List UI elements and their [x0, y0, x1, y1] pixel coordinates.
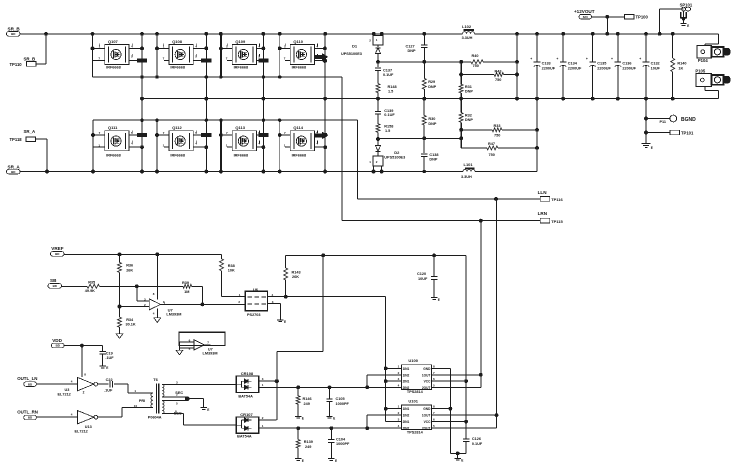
off-page arrow at Q114 pin — [315, 133, 328, 139]
svg-text:2200UF: 2200UF — [542, 66, 556, 70]
svg-text:1K: 1K — [678, 66, 683, 70]
svg-text:Q109: Q109 — [235, 39, 246, 44]
svg-text:L101: L101 — [464, 162, 474, 167]
wire bottom gate bus (row2) — [93, 119, 358, 121]
svg-text:TP116: TP116 — [551, 197, 563, 202]
svg-text:L102: L102 — [462, 24, 472, 29]
resistor R146 249 — [297, 387, 299, 396]
svg-text:1.5: 1.5 — [388, 90, 393, 94]
wire LLN riser — [357, 120, 359, 199]
wire U101 GND — [432, 408, 451, 410]
svg-text:BGND: BGND — [681, 117, 696, 123]
svg-text:TP110: TP110 — [10, 62, 23, 67]
svg-text:249: 249 — [305, 445, 311, 449]
resistor R31 DNP — [459, 84, 463, 93]
svg-text:P0604A: P0604A — [148, 416, 162, 420]
svg-text:750: 750 — [495, 78, 501, 82]
wire U100 1OUT/2OUT to LRN — [432, 374, 481, 376]
svg-text:E: E — [284, 320, 286, 324]
svg-text:LRN: LRN — [538, 211, 548, 216]
svg-text:R139: R139 — [304, 440, 313, 444]
svg-text:R34: R34 — [126, 318, 134, 322]
svg-text:BAT54A: BAT54A — [238, 395, 253, 399]
svg-text:SB: SB — [50, 278, 57, 283]
wire CR108 out to U100 — [298, 386, 401, 388]
op-amp U7 LM393M — [120, 254, 246, 322]
svg-text:PRI: PRI — [139, 399, 145, 403]
svg-text:C22: C22 — [106, 378, 113, 382]
capacitor C134 2200UF — [556, 32, 582, 100]
transistor Q114 (IRF6668) — [278, 120, 327, 173]
test point TP100 — [625, 15, 635, 20]
svg-text:1IN1: 1IN1 — [403, 407, 410, 411]
svg-text:U13: U13 — [85, 425, 92, 429]
connector P104 — [697, 46, 730, 64]
wire VCC drop to drivers — [465, 255, 467, 438]
dual diode CR108 BAT54A — [236, 371, 298, 398]
svg-text:2OUT: 2OUT — [422, 386, 431, 390]
svg-text:VDD: VDD — [52, 338, 62, 343]
svg-text:R140: R140 — [677, 62, 686, 66]
transistor Q107 (IRF6668) — [91, 32, 146, 77]
svg-text:SR_B: SR_B — [8, 27, 21, 32]
resistor R34 30.1K — [118, 317, 122, 327]
svg-text:R39: R39 — [182, 281, 189, 285]
svg-text:TPS2814: TPS2814 — [407, 390, 424, 394]
svg-text:E: E — [302, 459, 304, 463]
svg-text:R158: R158 — [384, 124, 393, 128]
wire U100 GND — [432, 367, 451, 369]
resistor R140 1K — [671, 32, 687, 100]
svg-text:750: 750 — [473, 64, 479, 68]
svg-text:+: + — [639, 57, 641, 61]
svg-text:E: E — [461, 459, 463, 463]
wire lower junction row y=138.3 — [378, 137, 461, 139]
svg-text:GND: GND — [423, 367, 431, 371]
svg-text:249: 249 — [304, 402, 310, 406]
gate driver U3 EL7212 — [36, 377, 97, 396]
test point TP116 — [540, 197, 550, 202]
wire U101 VCC — [432, 421, 467, 423]
svg-text:750: 750 — [494, 133, 500, 137]
svg-text:2IN2: 2IN2 — [403, 427, 410, 431]
transformer T6 P0604A — [139, 377, 236, 425]
node BGND / P11 — [645, 99, 647, 142]
capacitor C138 DNP — [421, 153, 427, 155]
wire VREF row — [64, 253, 222, 255]
resistor R29 DNP — [423, 48, 425, 79]
wire SR_B to top bus — [20, 33, 463, 35]
wire +12V drop to bus — [606, 17, 608, 34]
svg-text:E: E — [651, 146, 653, 150]
test point TP101 — [646, 132, 670, 134]
wire U6 out to driver inputs — [286, 296, 386, 298]
svg-text:.1UF: .1UF — [105, 356, 114, 360]
transistor Q111 (IRF6668) — [92, 120, 147, 173]
resistor R43 750 — [461, 74, 494, 76]
transistor Q109 (IRF6668) — [220, 32, 269, 77]
svg-text:Q112: Q112 — [172, 125, 182, 130]
svg-text:R31: R31 — [465, 85, 472, 89]
svg-text:R43: R43 — [495, 69, 502, 73]
svg-text:1OUT: 1OUT — [422, 373, 431, 377]
svg-text:E: E — [335, 459, 337, 463]
transistor Q112 (IRF6668) — [156, 120, 211, 173]
IC U101 TPS2814 — [398, 398, 435, 434]
wire input ties U100 — [366, 375, 368, 388]
transistor Q108 (IRF6668) — [156, 32, 211, 77]
svg-text:0.1UF: 0.1UF — [384, 113, 395, 117]
svg-text:C134: C134 — [568, 62, 578, 66]
svg-text:E: E — [106, 366, 108, 370]
svg-text:U3: U3 — [65, 388, 70, 392]
svg-text:TP101: TP101 — [681, 131, 694, 136]
svg-text:TP118: TP118 — [10, 137, 23, 142]
svg-text:10UF: 10UF — [651, 66, 661, 70]
svg-text:2200UF: 2200UF — [622, 66, 636, 70]
svg-text:DNP: DNP — [428, 122, 436, 126]
speaker SP101 — [658, 2, 693, 35]
wire P105 to mid bus — [704, 86, 706, 90]
wire CR107 out to U101 — [298, 427, 401, 429]
svg-text:SR_A: SR_A — [24, 129, 37, 134]
svg-text:2OUT: 2OUT — [422, 427, 431, 431]
svg-text:LLN: LLN — [538, 190, 548, 195]
svg-text:C139: C139 — [384, 109, 393, 113]
svg-text:IRF6668: IRF6668 — [234, 66, 249, 70]
svg-text:E: E — [302, 417, 304, 421]
capacitor C22 .1UF — [98, 383, 109, 385]
svg-text:Q114: Q114 — [293, 125, 303, 130]
resistor R148 1.5 — [377, 71, 379, 84]
svg-text:0.1UF: 0.1UF — [383, 73, 394, 77]
svg-text:+: + — [556, 57, 558, 61]
capacitor C136 2200UF — [611, 32, 637, 100]
resistor R35 49.9K — [62, 285, 88, 287]
resistor R39 1M — [137, 285, 183, 287]
svg-text:1OUT: 1OUT — [422, 414, 431, 418]
wire U101 1OUT/2OUT to LLN — [432, 414, 497, 416]
svg-text:1000PF: 1000PF — [336, 442, 350, 446]
svg-text:T6: T6 — [153, 377, 158, 382]
svg-text:VCC: VCC — [424, 380, 431, 384]
svg-text:0.1UF: 0.1UF — [472, 442, 483, 446]
resistor R143 26K — [285, 255, 287, 268]
svg-text:C137: C137 — [383, 69, 392, 73]
capacitor C139 0.1UF — [377, 99, 379, 112]
svg-text:IRF6668: IRF6668 — [234, 153, 249, 157]
svg-text:R33: R33 — [494, 124, 501, 128]
svg-text:U101: U101 — [408, 398, 418, 403]
svg-text:R38: R38 — [228, 264, 235, 268]
svg-text:UPS5100E3: UPS5100E3 — [384, 156, 405, 160]
wire VDD to U3 pin8 — [81, 346, 83, 377]
svg-text:1IN2: 1IN2 — [403, 414, 410, 418]
svg-text:EL7212: EL7212 — [75, 430, 88, 434]
svg-text:1IN1: 1IN1 — [403, 367, 410, 371]
svg-text:C120: C120 — [417, 272, 426, 276]
svg-text:OUTL_LN: OUTL_LN — [17, 376, 37, 381]
svg-text:R32: R32 — [465, 113, 472, 117]
svg-text:C135: C135 — [597, 62, 606, 66]
resistor R47 750 — [461, 147, 487, 149]
capacitor C137 0.1UF — [377, 62, 379, 67]
svg-text:2200UF: 2200UF — [597, 66, 611, 70]
svg-text:P11: P11 — [660, 120, 667, 124]
svg-text:DNP: DNP — [465, 118, 473, 122]
capacitor C132 10UF — [639, 32, 660, 100]
transistor Q113 (IRF6668) — [220, 120, 269, 173]
svg-text:D1: D1 — [352, 44, 358, 49]
svg-text:IRF6668: IRF6668 — [170, 153, 185, 157]
wire TP110 to top bus — [36, 63, 46, 65]
svg-text:SR_B: SR_B — [24, 57, 36, 62]
wire to T6 primary — [127, 384, 129, 393]
svg-text:E: E — [207, 408, 209, 412]
resistor R30 DNP — [423, 99, 425, 116]
svg-text:10: 10 — [134, 404, 138, 408]
svg-text:GND: GND — [423, 407, 431, 411]
ground — [116, 334, 123, 339]
svg-text:26K: 26K — [292, 275, 299, 279]
resistor R38 10K — [221, 254, 223, 258]
svg-text:SP101: SP101 — [680, 2, 693, 7]
svg-text:DNP: DNP — [465, 89, 473, 93]
svg-text:R29: R29 — [428, 80, 435, 84]
svg-text:IRF6668: IRF6668 — [292, 66, 307, 70]
resistor R33 750 — [461, 129, 492, 131]
svg-text:30.1K: 30.1K — [126, 323, 136, 327]
connector P105 — [695, 69, 729, 87]
svg-text:E: E — [687, 24, 689, 28]
svg-text:10K: 10K — [228, 268, 235, 272]
svg-text:EL7212: EL7212 — [58, 393, 71, 397]
svg-text:R36: R36 — [126, 264, 133, 268]
svg-text:IRF6668: IRF6668 — [292, 153, 307, 157]
svg-text:3.3UH: 3.3UH — [461, 175, 472, 179]
svg-text:BAT54A: BAT54A — [237, 435, 252, 439]
svg-text:P105: P105 — [695, 69, 705, 74]
svg-text:1000PF: 1000PF — [336, 402, 350, 406]
wire driver ground row — [450, 452, 466, 454]
wire to T6 primary low — [98, 416, 122, 418]
wire D1 junction row y=61.8 with R40 — [378, 61, 471, 63]
IC U100 TPS2814 — [398, 358, 435, 394]
wire input ties U101 — [366, 415, 368, 428]
gate driver U13 EL7212 — [36, 411, 97, 434]
svg-text:DNP: DNP — [429, 158, 437, 162]
capacitor C104 1000PF — [330, 428, 332, 439]
svg-text:49.9K: 49.9K — [85, 289, 95, 293]
resistor R32 DNP — [459, 113, 463, 123]
svg-text:C104: C104 — [336, 437, 346, 441]
svg-text:CR107: CR107 — [240, 412, 253, 417]
wire enable drop (from VCC row to CR pins) — [322, 255, 324, 351]
svg-text:P104: P104 — [698, 58, 708, 63]
svg-text:PS2703: PS2703 — [247, 313, 261, 317]
svg-text:R148: R148 — [388, 85, 397, 89]
svg-text:LM393M: LM393M — [203, 352, 218, 356]
capacitor C19 .1UF — [102, 346, 104, 352]
wire TP118 to bottom bus — [36, 138, 48, 140]
wire LRN drop to U100 outputs — [480, 221, 482, 375]
svg-text:VCC: VCC — [424, 420, 431, 424]
svg-text:R146: R146 — [303, 397, 312, 401]
svg-text:620: 620 — [583, 15, 588, 19]
wire top gate bus (row1) — [93, 76, 342, 78]
svg-text:+12VOUT: +12VOUT — [574, 9, 595, 14]
wire L101 output riser — [475, 171, 537, 173]
svg-text:IRF6668: IRF6668 — [106, 153, 121, 157]
svg-text:CR108: CR108 — [241, 371, 254, 376]
svg-text:2IN2: 2IN2 — [403, 386, 410, 390]
svg-text:C127: C127 — [406, 44, 415, 48]
svg-text:IRF6668: IRF6668 — [106, 66, 121, 70]
svg-text:1.5: 1.5 — [385, 129, 390, 133]
dual diode CR107 BAT54A — [236, 412, 298, 439]
svg-text:UPS5100E3: UPS5100E3 — [341, 52, 362, 56]
svg-text:.1UF: .1UF — [104, 389, 113, 393]
off-page arrow at Q110 pin — [315, 54, 328, 60]
svg-text:2: 2 — [83, 391, 85, 395]
capacitor C105 1000PF — [329, 387, 331, 398]
ground — [457, 456, 459, 458]
wire LRN riser — [341, 77, 343, 221]
svg-text:D2: D2 — [394, 150, 400, 155]
junction dots on gate buses — [141, 76, 143, 78]
wire VCC row y=255.4 — [286, 254, 466, 256]
wire damper vertical (thick) — [460, 62, 462, 85]
svg-text:26K: 26K — [126, 268, 133, 272]
svg-text:C133: C133 — [542, 62, 551, 66]
capacitor C120 10UF — [433, 255, 435, 276]
wire mid bus — [142, 98, 718, 100]
svg-text:2IN1: 2IN1 — [403, 380, 410, 384]
svg-text:2IN1: 2IN1 — [403, 420, 410, 424]
svg-text:VREF: VREF — [51, 246, 63, 251]
svg-text:10UF: 10UF — [418, 277, 428, 281]
svg-text:E: E — [333, 417, 335, 421]
svg-text:Q110: Q110 — [293, 39, 303, 44]
capacitor C133 2200UF — [530, 32, 556, 100]
svg-text:R40: R40 — [472, 54, 479, 58]
resistor R158 1.5 — [377, 114, 379, 124]
svg-text:C138: C138 — [429, 153, 438, 157]
svg-text:C136: C136 — [622, 62, 631, 66]
svg-text:TP100: TP100 — [636, 15, 649, 20]
wire top bus to P104 — [717, 34, 719, 44]
svg-text:E: E — [438, 298, 440, 302]
svg-text:IRF6668: IRF6668 — [170, 66, 185, 70]
resistor R36 26K — [119, 254, 121, 262]
wire phase verticals (right side of cells) — [141, 34, 143, 172]
wire U100 VCC — [432, 380, 467, 382]
svg-text:R143: R143 — [292, 271, 301, 275]
svg-text:DNP: DNP — [408, 49, 416, 53]
svg-text:R30: R30 — [428, 117, 435, 121]
svg-text:1IN2: 1IN2 — [403, 373, 410, 377]
svg-text:C132: C132 — [651, 62, 660, 66]
wire damper return riser — [516, 34, 518, 99]
ground (chassis) — [645, 142, 647, 144]
svg-text:DNP: DNP — [428, 85, 436, 89]
svg-text:Q111: Q111 — [108, 125, 118, 130]
wire bottom bus — [20, 171, 463, 173]
svg-text:1M: 1M — [184, 290, 189, 294]
wire VDD row — [64, 345, 103, 347]
test point TP115 — [540, 218, 550, 223]
capacitor C126 0.1UF — [465, 422, 467, 439]
svg-text:Q108: Q108 — [172, 39, 183, 44]
wire +12V output bus — [475, 33, 719, 35]
svg-text:+: + — [586, 57, 588, 61]
capacitor C135 2200UF — [586, 32, 612, 100]
capacitor C127 DNP — [423, 34, 425, 45]
svg-text:+: + — [530, 57, 532, 61]
wire +12VOUT to TP100 — [592, 16, 625, 18]
svg-text:C126: C126 — [472, 437, 481, 441]
diode D2 UPS5100E3 — [377, 139, 379, 146]
resistor R139 249 — [297, 428, 299, 439]
unused comparator U7 LM393M — [176, 332, 225, 356]
svg-text:U100: U100 — [408, 358, 418, 363]
svg-text:TP115: TP115 — [551, 219, 563, 224]
svg-text:R47: R47 — [488, 142, 495, 146]
svg-text:C19: C19 — [106, 351, 113, 355]
svg-text:TPS2814: TPS2814 — [407, 430, 424, 434]
wire LLN drop to U101 outputs — [496, 199, 498, 415]
svg-text:Q107: Q107 — [108, 39, 119, 44]
optocoupler U6 PS2703 — [222, 287, 288, 324]
svg-text:3.3UH: 3.3UH — [462, 36, 473, 40]
svg-text:+: + — [611, 57, 613, 61]
svg-text:2200UF: 2200UF — [568, 66, 582, 70]
svg-text:OUTL_RN: OUTL_RN — [17, 410, 38, 415]
svg-text:Q113: Q113 — [235, 125, 245, 130]
svg-text:R35: R35 — [88, 280, 95, 284]
svg-text:LM393M: LM393M — [166, 313, 181, 317]
svg-text:C105: C105 — [336, 397, 345, 401]
svg-text:750: 750 — [489, 153, 495, 157]
transistor Q110 (IRF6668) — [278, 32, 326, 77]
wire feedback — [201, 286, 203, 304]
